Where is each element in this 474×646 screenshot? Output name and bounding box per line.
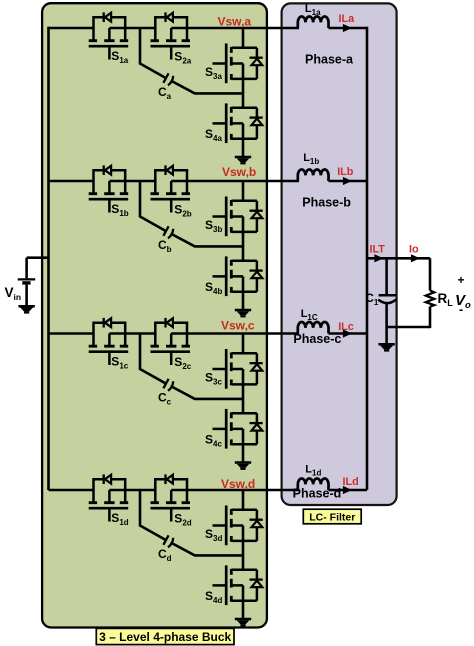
arrow ILT (total inductor current): [374, 254, 383, 262]
svg-text:LC- Filter: LC- Filter: [309, 512, 355, 524]
wire input rail to S1a drain: [49, 27, 95, 30]
svg-text:ILb: ILb: [337, 166, 354, 178]
capacitor Cd (flying capacitor): [163, 535, 173, 547]
ground (S4c): [235, 463, 251, 470]
wire S1c source to S2c drain (node between S1 and S2): [109, 332, 155, 335]
callout LC- Filter: [303, 509, 361, 524]
svg-text:ILT: ILT: [370, 244, 386, 256]
wire load return (RL bottom to C1 branch): [387, 326, 430, 329]
wire load node down to capacitor C1: [385, 258, 388, 294]
wire S1a source to S2a drain (node between S1 and S2): [109, 27, 155, 30]
transistor S2b: [151, 165, 191, 212]
wire S1d/S2d node down to capacitor Cd: [140, 490, 166, 540]
wire Vsw,b rail to S3b drain: [242, 181, 245, 201]
capacitor Cb (flying capacitor): [163, 226, 173, 238]
wire S3d source to S4d drain (junction with Cd): [242, 526, 245, 570]
wire S2b source to inductor (Vsw,b rail): [171, 180, 299, 183]
wire inductor L1b to output bus: [329, 180, 368, 183]
wire input rail to S1d drain: [49, 489, 95, 492]
arrow Io (output current): [411, 254, 420, 262]
wire S4b source to ground: [242, 276, 245, 309]
wire S3a source to S4a drain (junction with Ca): [242, 64, 245, 108]
svg-text:Vsw,d: Vsw,d: [221, 477, 255, 491]
capacitor Cc (flying capacitor): [163, 379, 173, 391]
transistor S3d: [213, 506, 263, 546]
output bus (vertical): [366, 27, 369, 490]
wire capacitor Ca to S3a/S4a node: [171, 81, 243, 94]
wire inductor L1c to output bus: [329, 332, 368, 335]
ground (S4a): [235, 157, 251, 164]
wire S3c source to S4c drain (junction with Cc): [242, 369, 245, 413]
transistor S3c: [213, 349, 263, 389]
inductor L1c: [298, 322, 329, 334]
svg-text:Phase-b: Phase-b: [302, 196, 351, 210]
inductor L1b: [298, 170, 329, 182]
wire S4a source to ground: [242, 123, 245, 156]
wire S1c/S2c node down to capacitor Cc: [140, 334, 166, 384]
wire capacitor C1 to ground: [385, 303, 388, 343]
svg-text:Phase-a: Phase-a: [305, 52, 354, 66]
inductor L1a: [298, 17, 329, 29]
ground (S4b): [235, 310, 251, 317]
converter block (green box): [42, 3, 267, 627]
transistor S1d: [89, 474, 129, 521]
transistor S4a: [213, 103, 263, 143]
wire S4d source to ground: [242, 585, 245, 618]
transistor S4d: [213, 565, 263, 605]
LC filter block (purple box): [282, 3, 397, 505]
wire inductor L1a to output bus: [329, 27, 368, 30]
svg-text:Phase-c: Phase-c: [293, 332, 341, 346]
svg-text:Vsw,a: Vsw,a: [218, 15, 252, 29]
svg-text:-: -: [459, 303, 463, 317]
transistor S2a: [151, 12, 191, 59]
transistor S1a: [89, 12, 129, 59]
transistor S4b: [213, 256, 263, 296]
wire S4c source to ground: [242, 429, 245, 462]
arrow ILa (inductor current): [343, 24, 352, 32]
transistor S1c: [89, 318, 129, 365]
arrow ILd (inductor current): [343, 486, 352, 494]
wire input rail to S1b drain: [49, 180, 95, 183]
transistor S3a: [213, 44, 263, 84]
wire S3b source to S4b drain (junction with Cb): [242, 217, 245, 261]
wire S2d source to inductor (Vsw,d rail): [171, 489, 299, 492]
transistor S4c: [213, 409, 263, 449]
arrow ILc (inductor current): [343, 329, 352, 337]
callout 3 - Level 4-phase Buck: [96, 628, 234, 644]
wire capacitor Cd to S3d/S4d node: [171, 543, 243, 556]
wire capacitor Cc to S3c/S4c node: [171, 386, 243, 399]
svg-text:Io: Io: [409, 244, 419, 256]
wire input rail to S1c drain: [49, 332, 95, 335]
wire capacitor Cb to S3b/S4b node: [171, 234, 243, 247]
wire S1b/S2b node down to capacitor Cb: [140, 181, 166, 231]
wire Vsw,a rail to S3a drain: [242, 28, 245, 48]
battery Vin: [18, 258, 36, 306]
ground (S4d): [235, 619, 251, 626]
wire Vsw,c rail to S3c drain: [242, 334, 245, 354]
wire S2a source to inductor (Vsw,a rail): [171, 27, 299, 30]
svg-text:RL: RL: [438, 291, 454, 308]
svg-text:3 – Level 4-phase Buck: 3 – Level 4-phase Buck: [99, 630, 231, 644]
transistor S1b: [89, 165, 129, 212]
ground (C1 / load return): [378, 344, 394, 351]
wire S1d source to S2d drain (node between S1 and S2): [109, 489, 155, 492]
inductor L1d: [298, 479, 329, 491]
svg-text:Phase-d: Phase-d: [293, 487, 342, 501]
capacitor C1 (output filter): [378, 295, 396, 303]
wire Vin to input rail: [27, 256, 50, 259]
svg-text:ILd: ILd: [343, 476, 359, 488]
wire S2c source to inductor (Vsw,c rail): [171, 332, 299, 335]
wire output bus to load node: [367, 257, 430, 260]
transistor S3b: [213, 197, 263, 237]
wire Vsw,d rail to S3d drain: [242, 490, 245, 510]
svg-text:Vsw,b: Vsw,b: [222, 165, 256, 179]
transistor S2d: [151, 474, 191, 521]
svg-text:ILa: ILa: [339, 13, 356, 25]
wire inductor L1d to output bus: [329, 489, 368, 492]
wire S1a/S2a node down to capacitor Ca: [140, 28, 166, 78]
capacitor Ca (flying capacitor): [163, 73, 173, 85]
wire S1b source to S2b drain (node between S1 and S2): [109, 180, 155, 183]
ground (Vin): [18, 306, 34, 313]
arrow ILb (inductor current): [343, 177, 352, 185]
input rail (Vin bus): [47, 27, 50, 490]
resistor RL (load): [426, 258, 434, 328]
svg-text:Vin: Vin: [5, 285, 22, 302]
transistor S2c: [151, 318, 191, 365]
svg-text:+: +: [458, 273, 465, 287]
svg-text:Vsw,c: Vsw,c: [221, 319, 255, 333]
